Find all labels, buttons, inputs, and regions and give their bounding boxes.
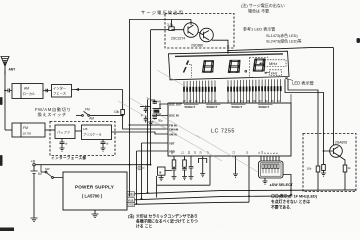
resistor R collector 1k — [339, 156, 352, 191]
resistor array group1 — [184, 87, 215, 92]
note LED types — [243, 26, 302, 44]
IC bottom pin wires left — [174, 156, 210, 167]
wire buffer to prescaler — [75, 130, 82, 132]
capacitor osc in 30p — [152, 116, 168, 123]
capacitor bottom C c — [189, 167, 194, 177]
IC pin wire VDT — [142, 142, 169, 144]
scan mark bottom left — [0, 228, 14, 232]
wire long vertical supply — [150, 30, 152, 166]
battery BT1 — [31, 166, 43, 218]
ground R base — [321, 173, 326, 176]
display segment pins group2 — [228, 79, 281, 103]
ground bracket — [200, 174, 205, 177]
IC top pin numbers — [183, 101, 280, 103]
capacitor bottom C a — [172, 169, 177, 177]
crease mark 3 — [152, 121, 222, 161]
dashed cell digit1 — [187, 64, 192, 78]
digit 8 third — [253, 59, 265, 71]
dashed box MHz driver — [303, 134, 356, 192]
pin label VDD — [127, 192, 135, 196]
wire bus GND — [135, 202, 250, 204]
digit 8 first — [202, 61, 213, 73]
antenna ANT — [1, 57, 15, 76]
block power supply LA5700 — [63, 172, 127, 210]
ground select — [263, 178, 268, 184]
resistor array group2 — [228, 86, 281, 92]
label MHz indicator — [260, 60, 287, 67]
capacitor stack left a — [144, 106, 148, 114]
label LED display pointer — [285, 78, 314, 87]
block buffer — [55, 125, 75, 139]
label kHz indicator — [265, 70, 282, 76]
ground under IC c — [189, 177, 194, 180]
wire FM box to buffer — [45, 129, 55, 131]
scan mark right edge — [357, 38, 360, 43]
block interface — [52, 85, 72, 98]
wire long vertical left bus — [129, 20, 131, 197]
resistor bottom R a — [172, 160, 176, 169]
ground under IC b — [182, 177, 187, 180]
wire pin14 down to bus — [248, 156, 250, 202]
ground under IC a — [172, 177, 177, 180]
block FM front end — [12, 123, 45, 137]
wire antenna vertical — [4, 70, 6, 130]
wire antenna to FM box — [5, 129, 12, 131]
wire bus VDD — [135, 190, 357, 194]
note MHz LED text — [271, 194, 318, 210]
switch power SW — [41, 165, 63, 179]
digit 8 second — [228, 60, 240, 72]
dashed box interface section — [50, 122, 115, 156]
wire vertical VDD bus — [136, 151, 138, 205]
wire Q2 emitter out — [212, 40, 229, 53]
IC bottom pin stubs select — [261, 156, 279, 161]
capacitor below prescaler — [101, 140, 110, 152]
wire AM to interface — [43, 89, 52, 92]
wire bus Vout — [135, 196, 292, 200]
wire crystal ground — [148, 100, 155, 125]
resistor 10k on interface line — [114, 90, 168, 130]
label cap mark — [141, 114, 144, 118]
transistor Q2 2SD880 — [191, 28, 213, 47]
crystal X1 — [153, 99, 169, 115]
switch FM/AM — [76, 108, 124, 121]
terminal +B — [31, 160, 36, 166]
pin label GND — [127, 202, 135, 206]
crease mark 4 — [196, 135, 258, 172]
wire +B rail — [35, 164, 150, 166]
wire IC right corner — [290, 94, 292, 103]
IC bottom pin number labels — [171, 151, 279, 154]
resistor R base — [322, 151, 326, 173]
IC bottom pin 13 to ground — [235, 156, 237, 174]
label SW SELECT — [269, 183, 294, 187]
block SW SELECT — [259, 161, 284, 178]
note ceramic text — [128, 214, 198, 229]
block prescaler — [82, 125, 112, 140]
ground power supply — [92, 210, 99, 218]
wire base feed to corner — [151, 29, 184, 31]
wire pin bracket — [199, 159, 207, 174]
label interface section — [51, 155, 87, 160]
wire select to bus — [283, 175, 292, 196]
wire surge bus vertical — [333, 48, 335, 145]
display top bezel — [175, 54, 283, 57]
crease mark 1 — [118, 101, 175, 133]
ground pin13 — [233, 174, 238, 177]
resistor R select pull — [307, 166, 320, 190]
resistor bottom R b — [183, 160, 187, 169]
ground battery — [31, 218, 38, 222]
capacitor antenna-AM coupling — [5, 89, 12, 93]
resistor 3.3k — [167, 20, 174, 31]
block AM front end — [12, 84, 43, 99]
wire osc bus stub — [140, 106, 150, 108]
wire display common B — [285, 79, 324, 151]
scan mark left edge b — [0, 155, 3, 166]
capacitor ceramic box — [158, 167, 172, 178]
capacitor below buffer — [60, 139, 69, 152]
dashed digit cell — [250, 57, 269, 76]
wire interface output to node — [72, 88, 123, 91]
capacitor osc out 7p — [147, 97, 161, 105]
scan mark left edge a — [0, 97, 3, 105]
wire vertical VDT bus — [141, 143, 143, 200]
capacitor stack left b — [144, 116, 148, 123]
wire vertical mid bus — [147, 100, 149, 194]
digit 1 — [184, 61, 189, 73]
wire display common A — [288, 79, 318, 166]
wire pin mid down — [209, 159, 211, 186]
label surge detector — [141, 9, 184, 16]
capacitor bottom C b — [182, 169, 187, 177]
note surge text — [241, 2, 285, 14]
display segment pins group1 — [184, 80, 215, 103]
transistor Q3 2SA608 — [323, 141, 348, 158]
label resistor group values — [184, 104, 273, 109]
decimal point — [245, 70, 247, 72]
IC left pin labels — [169, 102, 182, 153]
wire node to IC FM IN — [129, 124, 168, 126]
IC U1 LC7255 — [168, 103, 291, 156]
crease mark 2 — [130, 98, 200, 138]
label FM/AM switch — [35, 106, 72, 118]
wire surge output bus — [227, 48, 333, 52]
wire top feed horizontal — [129, 19, 191, 21]
transistor Q1 2SC2274 — [171, 20, 198, 41]
wire prescaler output to IC AM IN — [112, 132, 169, 134]
crease mark 5 — [157, 70, 188, 88]
ground ceramic — [159, 178, 164, 181]
pin label Vout — [127, 198, 135, 202]
wire stub y185 — [157, 176, 210, 198]
IC pin wire VDD — [137, 150, 169, 152]
dashed box surge detector — [165, 14, 234, 49]
display module outline — [169, 51, 290, 80]
capacitor bypass left — [137, 166, 145, 170]
